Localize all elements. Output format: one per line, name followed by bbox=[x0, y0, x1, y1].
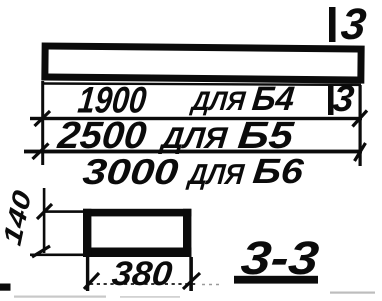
svg-text:Б4: Б4 bbox=[250, 80, 296, 118]
svg-text:3000: 3000 bbox=[81, 151, 180, 192]
svg-text:380: 380 bbox=[110, 255, 174, 293]
svg-text:ДЛЯ: ДЛЯ bbox=[189, 85, 248, 116]
140 top extension line bbox=[43, 210, 87, 213]
380 right extension line bbox=[189, 257, 193, 291]
left extension line bbox=[41, 81, 44, 165]
section mark top bar bbox=[329, 7, 336, 42]
tick left dim1 bbox=[35, 111, 51, 126]
beam elevation outline bbox=[45, 46, 361, 80]
right extension line bbox=[359, 85, 362, 166]
beam bottom thin line bbox=[44, 82, 361, 86]
dimension line 1900 bbox=[30, 117, 362, 120]
svg-text:ДЛЯ: ДЛЯ bbox=[184, 159, 246, 191]
left edge mark bbox=[0, 284, 11, 291]
dimension line 2500 bbox=[24, 150, 362, 154]
section mark bottom bar bbox=[328, 85, 334, 115]
380 left extension line bbox=[86, 257, 89, 291]
cross-section rectangle bbox=[83, 209, 191, 257]
tick right dim1 bbox=[353, 111, 368, 127]
bottom scan smudges bbox=[14, 296, 106, 298]
svg-text:ДЛЯ: ДЛЯ bbox=[157, 122, 230, 155]
tick left dim2 bbox=[33, 144, 49, 160]
tick right dim2 bbox=[355, 143, 366, 161]
tick left 380 bbox=[84, 273, 99, 289]
140 bottom extension line bbox=[30, 254, 87, 257]
tick bottom 140 bbox=[32, 246, 50, 257]
svg-text:Б6: Б6 bbox=[251, 152, 306, 191]
tick top 140 bbox=[37, 204, 52, 219]
underline of 3-3 bbox=[234, 276, 318, 284]
140 dim line (vertical) bbox=[43, 188, 46, 253]
tick right 380 bbox=[183, 273, 200, 289]
svg-text:Б5: Б5 bbox=[236, 115, 296, 157]
380 dim line (dashed) bbox=[90, 283, 197, 285]
